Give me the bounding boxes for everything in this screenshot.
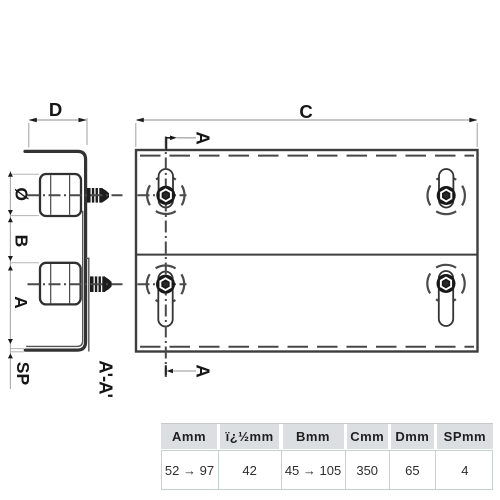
svg-text:A'-A': A'-A' [95, 360, 116, 397]
D arrow right [79, 118, 87, 123]
centerline horizontal upper row left part [28, 194, 123, 196]
bolt circle UL dashed [147, 177, 184, 214]
C dimension extension left [135, 123, 137, 147]
svg-text:D: D [49, 99, 62, 120]
D dimension line [30, 119, 87, 121]
C dimension line [137, 119, 477, 121]
D dimension extension left [28, 123, 30, 148]
slide plate edge right of web [86, 258, 89, 351]
C arrow right [469, 118, 477, 123]
left extension line roller2 top [10, 262, 39, 264]
bolt head UL [156, 186, 175, 205]
centerline vertical through left bolts [165, 137, 167, 378]
body cell C value [347, 451, 388, 489]
body cell B value [283, 451, 344, 489]
grease fitting 2 [90, 275, 112, 293]
slot UL [159, 169, 173, 208]
slot LR [439, 271, 453, 326]
body cell SP value [437, 451, 493, 489]
body bottom line [161, 489, 493, 490]
svg-text:Ø: Ø [11, 187, 31, 201]
bolt head LR [437, 274, 456, 293]
header cell Amm [161, 424, 217, 448]
body separator line [161, 450, 493, 451]
bolt circle LR dashed [427, 265, 464, 302]
body cell A value [161, 451, 218, 489]
bracket outer profile [25, 151, 86, 350]
plate middle line [136, 254, 478, 256]
D arrow left [29, 118, 37, 123]
header cell Cmm [347, 424, 388, 448]
plate top inner dashed line [140, 155, 474, 157]
roller 2 face lines [50, 264, 52, 303]
body cell D value [391, 451, 434, 489]
plate outline [136, 150, 478, 352]
header cell diameter mm [220, 424, 280, 448]
svg-text:A: A [193, 131, 214, 144]
centerline horizontal upper row right part [138, 194, 187, 196]
tick A top [8, 266, 13, 271]
left extension line SP bottom [10, 351, 24, 353]
tick dia bottom [8, 210, 13, 215]
left extension line roller1 bottom [10, 215, 39, 217]
slot LL [158, 272, 172, 327]
bracket inner plate line [26, 212, 82, 347]
section arrow bottom [166, 365, 196, 375]
left extension line roller1 top [10, 173, 39, 175]
roller 2 body [40, 263, 81, 305]
roller 1 body [40, 174, 81, 216]
body vertical lines [161, 450, 162, 490]
C arrow left [136, 118, 144, 123]
header cell Dmm [391, 424, 434, 448]
tick B top [8, 217, 13, 222]
plate bottom inner dashed line [140, 346, 474, 348]
header cell Bmm [283, 424, 344, 448]
svg-text:A: A [193, 364, 214, 377]
svg-text:B: B [12, 235, 32, 248]
body cell dia value [220, 451, 280, 489]
C dimension extension right [476, 123, 478, 147]
tick dia top [8, 172, 13, 177]
table top border [161, 423, 493, 424]
D dimension extension right [86, 118, 88, 145]
bolt circle LL dashed [147, 266, 184, 303]
left dimension line vertical [9, 171, 11, 389]
svg-text:A: A [11, 296, 31, 309]
roller 1 face lines [50, 175, 52, 215]
left extension line SP top [10, 348, 24, 350]
svg-text:C: C [299, 101, 312, 122]
tick SP bottom [8, 353, 13, 358]
centerline horizontal lower row right part [138, 283, 187, 285]
bolt head UR [437, 186, 456, 205]
header cell SPmm [437, 424, 493, 448]
dimension table [0, 0, 1, 1]
grease fitting 1 [87, 187, 109, 204]
tick A bottom [8, 339, 13, 344]
slot UR [439, 169, 453, 208]
svg-text:SP: SP [13, 362, 33, 386]
centerline horizontal lower row left part [28, 283, 123, 285]
tick B bottom [8, 256, 13, 261]
section arrow top [166, 136, 196, 151]
bolt circle UR dashed [428, 177, 465, 214]
bolt head LL [156, 275, 175, 294]
